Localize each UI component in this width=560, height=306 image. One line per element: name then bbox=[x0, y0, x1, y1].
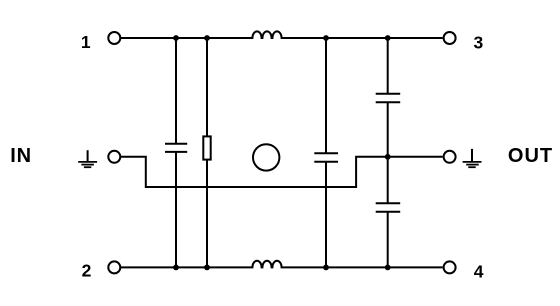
svg-text:2: 2 bbox=[82, 261, 92, 281]
svg-text:OUT: OUT bbox=[508, 145, 553, 167]
svg-text:IN: IN bbox=[10, 145, 32, 167]
svg-text:1: 1 bbox=[81, 32, 91, 52]
svg-text:4: 4 bbox=[474, 262, 484, 282]
svg-text:3: 3 bbox=[474, 32, 484, 52]
